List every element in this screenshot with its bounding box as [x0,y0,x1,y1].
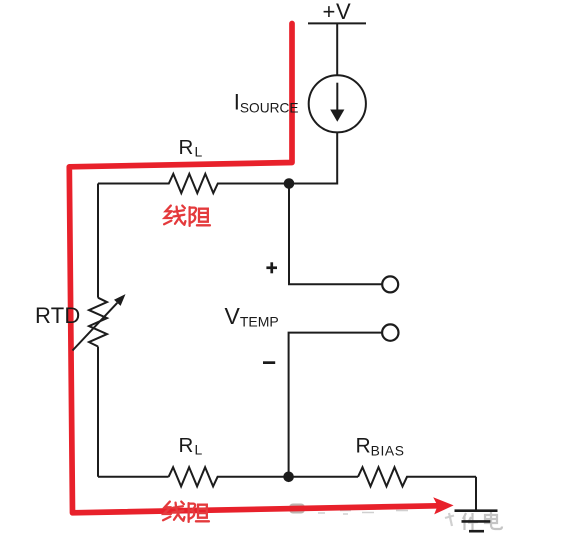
red arrowhead [433,497,453,514]
resistor RBIAS [358,467,476,486]
wire left vertical lower [97,347,99,477]
label 线阻 (bottom) char 线 [163,502,184,521]
label 线阻 (top) char 阻 [190,207,210,226]
terminal circle + [382,276,398,292]
label 线阻 (bottom) char 阻 [189,503,209,522]
wire top node to + terminal [289,184,382,285]
watermark gray text fragments [289,504,408,515]
resistor RL bottom [169,467,289,486]
wire bottom middle [289,476,358,478]
watermark char 电 [485,512,502,529]
red highlight path [69,24,437,513]
label + [266,262,277,273]
junction top node [284,178,295,189]
watermark char partial [445,513,454,526]
RTD variable resistor [73,298,118,351]
label 线阻 (top) char 线 [164,206,185,225]
terminal circle - [382,324,398,340]
svg-text:RTD: RTD [35,303,80,328]
watermark char 件 [463,513,478,530]
wire rail to current source [336,23,338,75]
bottom wire left [98,476,169,478]
wire - terminal branch [289,333,383,477]
ground [455,511,498,532]
junction bottom node [283,472,294,483]
label - [263,361,275,364]
svg-text:+V: +V [323,0,352,24]
wire left vertical upper [97,184,99,298]
wire current source to top node [289,132,337,183]
wire to ground [475,477,477,511]
resistor RL top [98,174,289,193]
+V power rail [308,22,366,24]
current source ISOURCE [309,75,366,132]
